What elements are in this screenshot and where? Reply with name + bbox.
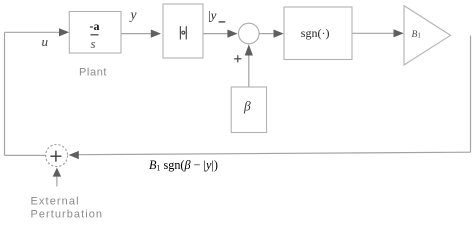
svg-text:u: u (42, 34, 49, 49)
svg-text:Plant: Plant (79, 67, 107, 79)
svg-text:-a: -a (90, 19, 100, 33)
svg-text:B1: B1 (412, 30, 422, 40)
svg-text:sgn(·): sgn(·) (301, 26, 330, 40)
svg-text:s: s (91, 36, 96, 51)
svg-text:|y: |y (208, 8, 217, 23)
svg-text:Perturbation: Perturbation (31, 209, 104, 221)
svg-text:B1 sgn(β − |y|): B1 sgn(β − |y|) (149, 158, 218, 173)
svg-text:β: β (243, 99, 251, 114)
svg-text:y: y (129, 7, 137, 22)
svg-text:External: External (31, 196, 80, 208)
